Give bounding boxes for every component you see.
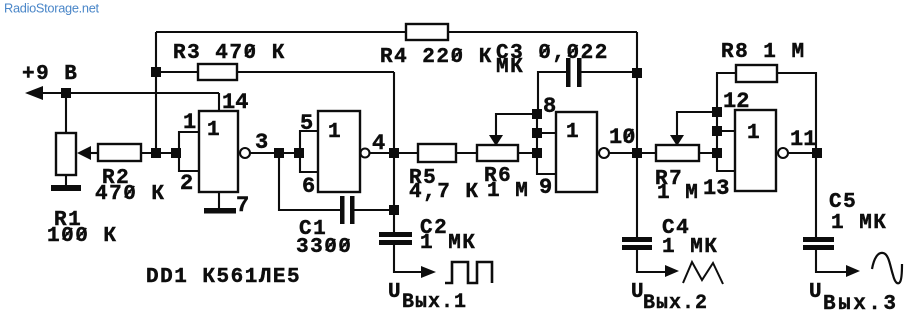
resistor R7 wiper arrow bbox=[670, 135, 684, 146]
output arrow 2 bbox=[665, 265, 679, 277]
wire gate2 input bracket pins 5,6 bbox=[300, 131, 318, 172]
svg-text:470 К: 470 К bbox=[95, 183, 166, 206]
svg-text:R3 470 К: R3 470 К bbox=[173, 42, 286, 65]
output arrow 1 bbox=[421, 266, 436, 278]
node junction gate1 input b bbox=[171, 148, 181, 158]
svg-text:100 К: 100 К bbox=[47, 225, 118, 248]
gate DD1.1 bbox=[199, 111, 238, 192]
wire +9V rail bbox=[38, 92, 219, 94]
wire C2 output lead bbox=[394, 245, 423, 272]
node junction R3 left bbox=[151, 67, 161, 77]
svg-text:1 М: 1 М bbox=[657, 182, 699, 205]
wire vertical node A (R3/R2/gate1 input) bbox=[155, 32, 157, 153]
wire R3 left lead bbox=[161, 71, 198, 73]
node junction gate2 input b bbox=[294, 148, 304, 158]
svg-text:МК: МК bbox=[496, 56, 524, 79]
svg-text:1: 1 bbox=[183, 110, 196, 135]
capacitor C5 bbox=[803, 237, 834, 242]
svg-text:+9 В: +9 В bbox=[22, 63, 78, 86]
node junction pin11 output bbox=[812, 148, 822, 158]
node junction pin8 top bbox=[532, 109, 542, 119]
svg-text:3: 3 bbox=[255, 130, 268, 155]
svg-text:Вых.1: Вых.1 bbox=[402, 291, 467, 314]
svg-text:10: 10 bbox=[609, 125, 635, 150]
wire R7 wiper bbox=[677, 112, 712, 136]
resistor R6 wiper arrow bbox=[489, 135, 503, 146]
svg-text:6: 6 bbox=[302, 174, 315, 199]
wire gate4 pin12 spur bbox=[717, 130, 735, 132]
resistor R1 (potentiometer body) bbox=[56, 133, 76, 175]
wire vertical node C (R3/pin4/C1/C2) bbox=[393, 72, 395, 232]
resistor R2 bbox=[98, 144, 141, 161]
resistor R8 bbox=[736, 65, 777, 82]
resistor R5 bbox=[418, 144, 456, 162]
node junction gate4 input mid bbox=[712, 126, 722, 136]
resistor R1 wiper arrow bbox=[77, 146, 91, 160]
wire C4 output lead bbox=[637, 250, 665, 272]
wire gate1 output pin3 bbox=[250, 152, 300, 154]
wire gate1 input bracket pins 1,2 bbox=[179, 132, 199, 171]
svg-text:4: 4 bbox=[372, 131, 385, 156]
wire gate4 output pin11 bbox=[788, 152, 812, 154]
svg-text:R4 220 К: R4 220 К bbox=[380, 46, 493, 69]
node junction C1 right bbox=[389, 205, 399, 215]
gate DD1.4 bbox=[735, 110, 776, 191]
resistor R7 (potentiometer body) bbox=[656, 145, 699, 161]
slashed zeros (scan font style) bbox=[63, 45, 634, 251]
wire top left (node A to R4) bbox=[156, 31, 406, 33]
wire C1 left branch bbox=[279, 153, 340, 210]
gate DD1.2 bbox=[318, 111, 360, 192]
wire R8 right lead to node 11 bbox=[777, 73, 816, 237]
capacitor C4 bbox=[622, 237, 652, 242]
svg-text:1 МК: 1 МК bbox=[831, 212, 887, 235]
svg-text:C5: C5 bbox=[829, 191, 857, 214]
svg-text:12: 12 bbox=[723, 89, 749, 114]
gate DD1.3 bbox=[556, 112, 597, 192]
node junction C3 right bbox=[632, 68, 642, 78]
svg-text:13: 13 bbox=[703, 176, 729, 201]
wire gate1 pin7 lead bbox=[218, 192, 220, 209]
svg-text:U: U bbox=[388, 281, 402, 304]
svg-text:7: 7 bbox=[236, 193, 249, 218]
svg-text:Вых.3: Вых.3 bbox=[823, 293, 899, 316]
svg-text:DD1 К561ЛЕ5: DD1 К561ЛЕ5 bbox=[146, 266, 301, 289]
node junction R7 right bbox=[712, 148, 722, 158]
output arrow 3 bbox=[846, 265, 860, 277]
wire top right (R4 to node B) bbox=[448, 31, 637, 33]
svg-text:11: 11 bbox=[790, 127, 816, 152]
power arrow +9V bbox=[25, 86, 43, 100]
capacitor C1 bbox=[340, 196, 345, 224]
wire vertical node B (R4/C3/pin10/C4) bbox=[636, 32, 638, 237]
wire R6 wiper bbox=[496, 114, 532, 136]
node junction gate3 input mid bbox=[532, 128, 542, 138]
svg-text:1: 1 bbox=[566, 121, 580, 144]
resistor R6 (potentiometer body) bbox=[477, 145, 518, 161]
wire R5 to R6 bbox=[456, 152, 477, 154]
svg-text:2: 2 bbox=[180, 171, 193, 196]
wire gate3 pin8 spur bbox=[537, 132, 556, 134]
svg-text:1 МК: 1 МК bbox=[420, 232, 476, 255]
wire R3 right lead bbox=[237, 71, 394, 73]
node junction pin4 output bbox=[389, 148, 399, 158]
ground pin7 bbox=[204, 208, 236, 214]
svg-text:1: 1 bbox=[328, 121, 342, 144]
node junction C1/gate2 input a bbox=[274, 148, 284, 158]
wire C3 left branch bbox=[538, 72, 566, 109]
square wave symbol bbox=[445, 262, 492, 283]
capacitor C3 bbox=[566, 58, 571, 87]
wire C3 right lead bbox=[581, 71, 632, 73]
svg-text:4,7 К: 4,7 К bbox=[409, 181, 480, 204]
resistor R3 bbox=[198, 64, 237, 80]
svg-text:RadioStorage.net: RadioStorage.net bbox=[4, 1, 100, 16]
wire gate2 output pin4 to R5 bbox=[369, 152, 418, 154]
wire R1 bottom lead bbox=[65, 175, 67, 187]
wire C1 right lead bbox=[354, 209, 394, 211]
capacitor C2 bbox=[379, 232, 412, 237]
node junction pin10 output bbox=[632, 148, 642, 158]
wire R2 left lead bbox=[90, 152, 98, 154]
wire gate3 output pin10 to R7 bbox=[609, 152, 656, 154]
svg-text:1: 1 bbox=[747, 122, 761, 145]
resistor R4 bbox=[406, 24, 448, 40]
ground under R1 bbox=[51, 185, 81, 191]
svg-text:5: 5 bbox=[300, 111, 313, 136]
wire pin14 drop from rail bbox=[218, 93, 220, 111]
node junction rail/R1 bbox=[61, 88, 71, 98]
svg-text:R8 1 М: R8 1 М bbox=[721, 41, 806, 64]
svg-text:14: 14 bbox=[222, 90, 248, 115]
wire R1 top lead bbox=[65, 93, 67, 133]
triangle wave symbol bbox=[683, 262, 723, 284]
svg-text:3300: 3300 bbox=[296, 236, 352, 259]
svg-text:1 М: 1 М bbox=[487, 180, 529, 203]
wire gate4 input bracket pins 12,13 bbox=[717, 112, 735, 171]
node junction pin12 top bbox=[712, 107, 722, 117]
svg-text:Вых.2: Вых.2 bbox=[643, 292, 708, 315]
svg-text:9: 9 bbox=[539, 175, 552, 200]
wire R8 left lead bbox=[717, 73, 736, 112]
wire R7 right lead bbox=[699, 152, 717, 154]
svg-text:1 МК: 1 МК bbox=[662, 236, 718, 259]
wire R2 right lead bbox=[141, 152, 179, 154]
svg-text:1: 1 bbox=[207, 119, 221, 142]
wire gate3 input bracket pins 8,9 bbox=[537, 114, 556, 174]
svg-text:8: 8 bbox=[543, 94, 556, 119]
svg-text:U: U bbox=[809, 281, 823, 304]
wire C5 output lead bbox=[816, 250, 847, 272]
wire R6 right lead bbox=[518, 152, 537, 154]
sine wave symbol bbox=[872, 253, 902, 283]
node junction R2/gate1 input a bbox=[151, 148, 161, 158]
node junction R6 right bbox=[532, 148, 542, 158]
